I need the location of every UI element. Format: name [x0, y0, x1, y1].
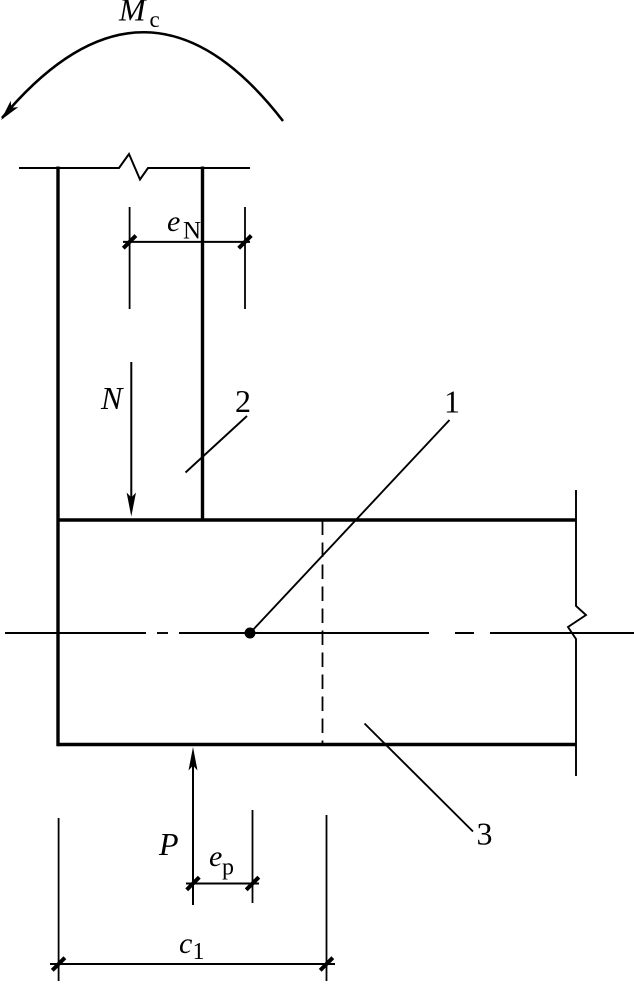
svg-text:N: N	[183, 218, 201, 245]
moment arc M_c	[2, 32, 283, 121]
c1 dimension left extension line	[58, 818, 60, 981]
leader line for label 1	[251, 420, 450, 632]
c1 left tick	[52, 958, 65, 971]
column top break line	[19, 154, 250, 180]
beam top edge	[58, 518, 576, 522]
column right edge	[201, 167, 204, 521]
svg-text:3: 3	[477, 816, 493, 852]
node 1 dot	[245, 628, 256, 639]
e_p dimension line	[186, 883, 259, 885]
e_p dimension right extension line	[252, 810, 254, 903]
svg-text:p: p	[222, 855, 234, 881]
beam right break line	[568, 490, 586, 776]
svg-text:e: e	[209, 840, 222, 873]
c1 dimension line	[50, 963, 335, 965]
e_N right tick	[239, 236, 252, 249]
centerline dash segment 3	[490, 632, 634, 634]
centerline dot 2	[455, 632, 474, 634]
centerline dash segment 1	[5, 632, 146, 634]
column left edge and beam left edge	[56, 167, 59, 747]
hidden edge dashed line	[322, 521, 324, 745]
svg-text:1: 1	[193, 939, 205, 965]
svg-text:e: e	[167, 205, 180, 238]
force N arrow shaft	[130, 362, 132, 498]
svg-text:c: c	[150, 7, 160, 32]
svg-text:2: 2	[235, 383, 251, 419]
svg-text:P: P	[158, 826, 179, 862]
force P arrowhead	[189, 747, 198, 771]
e_p left tick	[187, 877, 200, 890]
svg-text:1: 1	[444, 384, 460, 420]
beam bottom edge	[58, 743, 576, 747]
centerline dot 1	[157, 632, 168, 634]
c1 right tick	[320, 958, 333, 971]
force N arrowhead	[127, 493, 136, 517]
force P arrow shaft	[192, 765, 194, 905]
centerline dash segment 2	[179, 632, 429, 634]
leader line for label 2	[186, 416, 248, 473]
svg-text:M: M	[118, 0, 148, 28]
e_N dimension right extension line	[244, 207, 246, 309]
svg-text:c: c	[179, 927, 192, 960]
svg-text:N: N	[100, 380, 124, 416]
e_N dimension left extension line	[129, 207, 131, 309]
c1 dimension right extension line	[326, 815, 328, 981]
e_N dimension line	[123, 241, 250, 243]
moment arc arrowhead	[1, 101, 18, 120]
e_N left tick	[123, 236, 136, 249]
e_p right tick	[246, 877, 259, 890]
leader line for label 3	[365, 724, 474, 832]
